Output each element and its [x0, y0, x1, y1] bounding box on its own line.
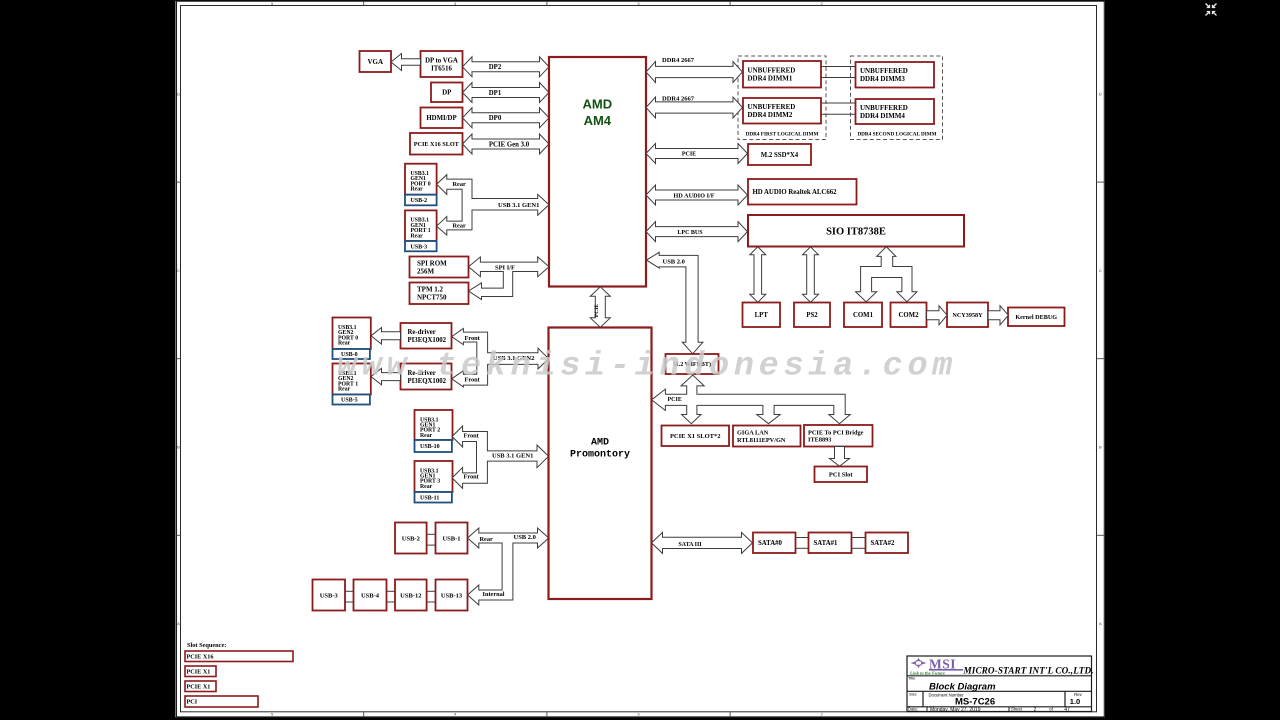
block re-driver PI3EQX1002 (2) — [401, 364, 452, 390]
block DP connector — [431, 83, 463, 103]
svg-text:Title: Title — [908, 676, 916, 681]
block UNBUFFERED DDR4 DIMM3 — [856, 62, 935, 88]
bus arrow HD AUDIO I/F — [646, 185, 748, 205]
svg-text:Rear: Rear — [420, 433, 433, 439]
svg-text:PCIE: PCIE — [682, 152, 696, 158]
block UNBUFFERED DDR4 DIMM4 — [856, 99, 935, 124]
bus arrow DDR4 2667 channel A — [646, 57, 743, 83]
svg-text:PCIE Gen 3.0: PCIE Gen 3.0 — [489, 141, 530, 148]
svg-text:SATA III: SATA III — [678, 542, 702, 548]
svg-text:IT6516: IT6516 — [431, 65, 452, 72]
svg-text:USB-1: USB-1 — [442, 535, 460, 542]
svg-text:B: B — [177, 445, 180, 450]
sheet frame — [177, 1, 1105, 717]
svg-text:RTL8111EPV/GN: RTL8111EPV/GN — [737, 437, 786, 444]
svg-text:SATA#1: SATA#1 — [814, 540, 839, 547]
svg-text:DP1: DP1 — [489, 90, 502, 97]
port SATA#1 — [809, 533, 852, 554]
port USB-4 header — [354, 580, 387, 611]
svg-text:USB-10: USB-10 — [420, 444, 440, 450]
wire USB-4 to USB-12 — [387, 590, 396, 592]
arrow COM2 to NCY3958Y — [927, 306, 948, 325]
wire SATA1 to SATA2 — [852, 537, 866, 539]
port SATA#2 — [866, 533, 909, 554]
wire USB-3 to USB-4 — [345, 590, 354, 592]
bus arrow DP1 — [463, 83, 550, 103]
svg-text:Internal: Internal — [483, 591, 505, 598]
svg-text:DDR4 2667: DDR4 2667 — [662, 57, 695, 64]
bus arrow USB 2.0 AM4 to M.2 WIFI — [647, 252, 703, 353]
svg-text:PCIE X1: PCIE X1 — [187, 668, 211, 675]
svg-text:SPI I/F: SPI I/F — [495, 265, 515, 272]
bus arrow USB 3.1 GEN1 to Promontory — [452, 426, 548, 488]
block re-driver PI3EQX1002 (1) — [401, 323, 452, 349]
port USB-0 rear — [333, 349, 370, 359]
svg-text:PCIE X1 SLOT*2: PCIE X1 SLOT*2 — [670, 433, 721, 440]
block USB3.1 GEN1 PORT 0 Rear — [405, 164, 437, 195]
svg-text:DDR4 SECOND LOGICAL DIMM: DDR4 SECOND LOGICAL DIMM — [857, 131, 936, 137]
svg-text:Front: Front — [464, 473, 480, 480]
svg-text:USB 3.1 GEN1: USB 3.1 GEN1 — [498, 202, 539, 209]
svg-text:UNBUFFERED: UNBUFFERED — [860, 104, 908, 112]
svg-text:2: 2 — [1034, 707, 1037, 713]
svg-text:AMD: AMD — [582, 97, 612, 112]
arrow re-driver2 to port1 — [371, 368, 401, 385]
svg-text:DP to VGA: DP to VGA — [425, 57, 458, 64]
svg-text:TPM 1.2: TPM 1.2 — [417, 286, 444, 294]
port SATA#0 — [753, 533, 796, 554]
port USB-10 — [415, 440, 452, 452]
bus arrow SIO to COM1/COM2 split — [856, 247, 917, 302]
port USB-1 header — [436, 523, 468, 554]
bus arrow DP0 — [463, 108, 550, 128]
block SPI ROM 256M — [410, 257, 469, 278]
svg-text:DDR4 DIMM4: DDR4 DIMM4 — [860, 112, 905, 120]
svg-text:USB-11: USB-11 — [420, 495, 439, 501]
wire USB-2 to USB-1 — [427, 533, 436, 535]
svg-text:DP2: DP2 — [489, 64, 502, 71]
svg-text:USB-3: USB-3 — [320, 592, 339, 599]
svg-text:DP: DP — [442, 89, 452, 97]
svg-text:PCI: PCI — [187, 699, 198, 706]
block Kernel DEBUG — [1008, 308, 1065, 327]
block HD AUDIO Realtek ALC662 — [748, 179, 857, 205]
svg-text:PCIE X16: PCIE X16 — [187, 653, 214, 660]
svg-text:PCIE: PCIE — [594, 304, 600, 317]
svg-text:Rear: Rear — [338, 341, 351, 347]
block USB3.1 GEN1 PORT 1 Rear — [405, 210, 437, 241]
svg-text:HD AUDIO Realtek ALC662: HD AUDIO Realtek ALC662 — [753, 189, 838, 196]
svg-text:SIO IT8738E: SIO IT8738E — [826, 226, 886, 237]
svg-text:Size: Size — [909, 692, 918, 697]
svg-text:Re-driver: Re-driver — [408, 329, 436, 336]
bus arrow SATA III — [652, 532, 753, 553]
svg-text:USB 2.0: USB 2.0 — [663, 258, 685, 265]
slot PCIE X16 — [185, 651, 293, 662]
svg-text:DP0: DP0 — [489, 115, 502, 122]
arrow NCY3958Y to Kernel DEBUG — [988, 306, 1008, 325]
svg-text:DDR4 FIRST LOGICAL DIMM: DDR4 FIRST LOGICAL DIMM — [746, 131, 819, 137]
svg-text:Front: Front — [465, 335, 481, 342]
svg-text:ITE8893: ITE8893 — [808, 437, 831, 444]
svg-text:HD AUDIO I/F: HD AUDIO I/F — [673, 193, 714, 200]
chip U1: AMD AM4 — [549, 57, 646, 287]
svg-text:PCIE X16 SLOT: PCIE X16 SLOT — [414, 141, 460, 148]
block GIGA LAN RTL8111EPV/GN — [733, 426, 801, 447]
svg-text:PCI Slot: PCI Slot — [829, 472, 853, 479]
svg-text:B: B — [1099, 445, 1102, 450]
svg-text:NPCT750: NPCT750 — [417, 294, 447, 302]
bus arrow SIO-LPT — [750, 247, 766, 302]
svg-text:1.0: 1.0 — [1070, 697, 1080, 706]
block UNBUFFERED DDR4 DIMM1 — [743, 61, 821, 88]
block M.2 SSD*X4 — [748, 144, 811, 165]
svg-text:USB 3.1 GEN1: USB 3.1 GEN1 — [492, 452, 533, 459]
block COM1 — [844, 303, 882, 328]
block USB3.1 GEN1 PORT 3 Rear — [415, 461, 453, 492]
block PCI Slot — [815, 467, 868, 483]
block LPT — [743, 303, 781, 328]
svg-text:PCIE X1: PCIE X1 — [187, 683, 211, 690]
port USB-2 header — [395, 523, 427, 554]
svg-text:Rear: Rear — [453, 181, 466, 188]
port USB-3 header — [313, 580, 346, 611]
svg-text:PCIE: PCIE — [668, 397, 682, 403]
svg-text:AMD: AMD — [591, 438, 609, 449]
svg-text:Rear: Rear — [453, 223, 466, 230]
svg-text:C: C — [177, 268, 180, 273]
bus arrow LPC BUS — [646, 222, 748, 242]
svg-text:UNBUFFERED: UNBUFFERED — [860, 67, 908, 75]
svg-text:Monday, May 27, 2019: Monday, May 27, 2019 — [930, 707, 981, 713]
port USB-3 rear — [405, 241, 437, 251]
block VGA connector — [360, 51, 392, 72]
bus arrow DDR4 2667 channel B — [646, 95, 743, 118]
arrow VGA link — [391, 54, 421, 71]
svg-text:Date:: Date: — [908, 707, 918, 712]
bus arrow USB 3.1 GEN1 to AM4 — [437, 175, 549, 235]
svg-text:USB-12: USB-12 — [400, 592, 421, 599]
slot PCIE X1 (2) — [185, 681, 216, 692]
block PCIE X1 SLOT*2 — [662, 426, 730, 447]
title fields — [908, 676, 1083, 713]
svg-text:Rear: Rear — [338, 387, 351, 393]
svg-text:HDMI/DP: HDMI/DP — [426, 115, 456, 122]
wire USB-12 to USB-13 — [427, 590, 436, 592]
block PCIE To PCI Bridge ITE8893 — [804, 425, 873, 447]
svg-text:NCY3958Y: NCY3958Y — [952, 312, 983, 319]
block DP to VGA IT6516 — [421, 51, 463, 77]
svg-text:47: 47 — [1064, 707, 1070, 713]
svg-text:GIGA LAN: GIGA LAN — [737, 430, 769, 437]
svg-text:DDR4 2667: DDR4 2667 — [662, 95, 695, 102]
svg-text:PS2: PS2 — [806, 312, 818, 319]
svg-text:VGA: VGA — [367, 58, 383, 66]
port USB-12 header — [395, 580, 427, 611]
svg-text:SPI ROM: SPI ROM — [417, 259, 447, 267]
bus arrow USB 2.0 to Promontory — [468, 528, 549, 605]
svg-text:Kernel DEBUG: Kernel DEBUG — [1015, 314, 1057, 321]
svg-text:PCIE To PCI Bridge: PCIE To PCI Bridge — [808, 429, 864, 436]
svg-text:AM4: AM4 — [584, 113, 612, 128]
svg-text:C: C — [1099, 268, 1102, 273]
block PCIE X16 SLOT — [410, 133, 463, 155]
arrow re-driver1 to port0 — [371, 328, 401, 345]
svg-text:Sheet: Sheet — [1011, 707, 1023, 712]
block M.2 WIFI(BT) — [666, 354, 719, 374]
fullscreen icon — [1206, 4, 1217, 16]
svg-text:Block Diagram: Block Diagram — [929, 682, 996, 693]
svg-text:D: D — [177, 91, 180, 96]
slot PCIE X1 (1) — [185, 666, 216, 677]
svg-text:A: A — [177, 621, 180, 626]
block NCY3958Y — [947, 303, 988, 328]
dashed group DDR4 FIRST LOGICAL DIMM — [738, 56, 826, 140]
bus arrow USB 3.1 GEN2 to Promontory — [452, 329, 549, 387]
svg-text:LPC BUS: LPC BUS — [677, 230, 703, 236]
svg-text:USB-4: USB-4 — [361, 592, 380, 599]
bus arrow SIO-PS2 — [803, 247, 819, 302]
bus arrow SPI I/F — [469, 257, 550, 300]
svg-text:LPT: LPT — [755, 312, 769, 319]
wire SATA0 to SATA1 — [796, 537, 809, 539]
svg-text:COM1: COM1 — [853, 312, 874, 319]
bus arrow PCIE AM4-Promontory — [590, 287, 610, 328]
svg-text:www.teknisi-indonesia.com: www.teknisi-indonesia.com — [337, 348, 957, 386]
block USB3.1 GEN2 PORT 1 Rear — [333, 364, 371, 395]
port USB-13 header — [436, 580, 468, 611]
svg-text:Rear: Rear — [480, 536, 493, 543]
slot PCI — [185, 696, 258, 707]
svg-text:256M: 256M — [417, 267, 435, 275]
svg-text:UNBUFFERED: UNBUFFERED — [748, 67, 796, 75]
dashed group DDR4 SECOND LOGICAL DIMM — [851, 56, 943, 140]
title block — [907, 656, 1092, 712]
svg-text:USB-3: USB-3 — [411, 244, 428, 250]
svg-text:Rear: Rear — [420, 484, 433, 490]
svg-text:Rear: Rear — [411, 233, 424, 239]
port USB-11 — [415, 492, 452, 503]
svg-text:PI3EQX1002: PI3EQX1002 — [408, 337, 447, 344]
chip U2: AMD Promontory — [549, 328, 652, 600]
arrow bridge to PCI Slot — [830, 447, 850, 467]
chip SIO IT8738E — [748, 215, 964, 247]
block TPM 1.2 NPCT750 — [410, 283, 469, 305]
svg-text:COM2: COM2 — [898, 312, 919, 319]
bus arrow PCIE to M.2 SSD — [646, 144, 748, 164]
svg-text:D: D — [1099, 91, 1102, 96]
bus arrow PCIE Gen 3.0 — [463, 134, 550, 154]
bus arrow PCIE fanout (Promontory/M.2 WIFI/slots) — [652, 375, 851, 424]
svg-text:DDR4 DIMM3: DDR4 DIMM3 — [860, 75, 905, 83]
svg-text:USB-2: USB-2 — [411, 198, 428, 204]
svg-text:Rear: Rear — [411, 187, 424, 193]
svg-text:DDR4 DIMM2: DDR4 DIMM2 — [748, 111, 793, 119]
block COM2 — [891, 303, 927, 328]
svg-text:Front: Front — [464, 432, 480, 439]
port USB-5 rear — [333, 395, 370, 405]
svg-text:SATA#0: SATA#0 — [758, 540, 783, 547]
svg-text:A: A — [1099, 621, 1102, 626]
MSI logo — [909, 657, 972, 676]
svg-text:MICRO-START INT'L CO.,LTD.: MICRO-START INT'L CO.,LTD. — [963, 666, 1094, 676]
schematic page — [176, 1, 1106, 717]
svg-text:UNBUFFERED: UNBUFFERED — [748, 103, 796, 111]
bus arrow DP2 — [463, 57, 550, 77]
svg-text:USB-2: USB-2 — [402, 535, 420, 542]
wire DIMM1 to DIMM3 — [821, 66, 856, 68]
svg-text:USB-5: USB-5 — [341, 398, 358, 404]
block USB3.1 GEN1 PORT 2 Rear — [415, 410, 453, 440]
block UNBUFFERED DDR4 DIMM2 — [743, 98, 821, 124]
block PS2 — [794, 303, 830, 328]
block USB3.1 GEN2 PORT 0 Rear — [333, 318, 371, 350]
svg-text:Slot Sequence:: Slot Sequence: — [187, 642, 226, 649]
port USB-2 rear — [405, 195, 437, 206]
block HDMI/DP connector — [421, 108, 463, 129]
svg-text:USB-13: USB-13 — [441, 592, 463, 599]
svg-text:M.2 SSD*X4: M.2 SSD*X4 — [761, 152, 799, 159]
wire DIMM2 to DIMM4 — [821, 102, 856, 104]
svg-text:USB 2.0: USB 2.0 — [514, 534, 536, 541]
svg-text:DDR4 DIMM1: DDR4 DIMM1 — [748, 75, 793, 83]
svg-text:Promontory: Promontory — [570, 450, 630, 461]
svg-text:SATA#2: SATA#2 — [871, 540, 896, 547]
